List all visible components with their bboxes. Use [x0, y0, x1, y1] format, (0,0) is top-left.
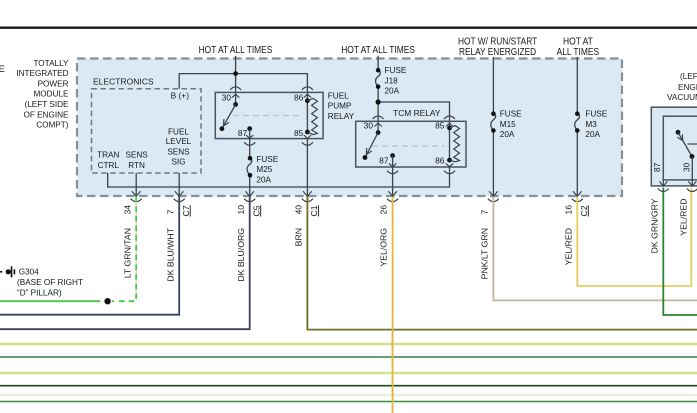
fuse M15 20A — [491, 114, 496, 131]
svg-text:LT GRN/TAN: LT GRN/TAN — [122, 228, 132, 278]
junction node at B(+) branch — [233, 71, 238, 76]
svg-text:TRAN: TRAN — [97, 151, 119, 160]
svg-text:CTRL: CTRL — [98, 161, 120, 170]
svg-text:16: 16 — [563, 205, 573, 215]
pin 7 exit arrow — [489, 191, 498, 196]
wire pin85 down to TIPM edge — [306, 139, 308, 196]
svg-text:FUEL: FUEL — [328, 91, 349, 100]
TCM pin 86 exit arrow — [446, 163, 453, 166]
fuel pump relay K1 box — [215, 92, 323, 138]
TIPM module box (dashed, light blue) — [77, 59, 622, 197]
svg-text:FUSE: FUSE — [585, 110, 607, 119]
TCM pin 30 entry arrow — [374, 123, 381, 126]
svg-text:ENGINE: ENGINE — [678, 83, 697, 92]
bus wire 5 (very pale green) — [0, 394, 697, 396]
svg-text:20A: 20A — [500, 130, 515, 139]
svg-text:E: E — [0, 64, 5, 75]
svg-text:86: 86 — [435, 156, 445, 166]
bus wire 6 (green) — [0, 401, 697, 403]
wire DK BLU/ORG pin 10 C5 — [0, 197, 250, 330]
svg-text:COMPT): COMPT) — [36, 121, 69, 130]
svg-text:PNK/LT GRN: PNK/LT GRN — [480, 228, 490, 279]
connector cup above TCM pin 85 — [444, 116, 455, 119]
svg-text:M3: M3 — [585, 120, 597, 129]
fuse M3 20A — [575, 114, 580, 131]
svg-text:DK BLU/ORG: DK BLU/ORG — [236, 228, 246, 282]
svg-text:ELECTRONICS: ELECTRONICS — [93, 76, 154, 86]
vacuum pump outer box — [651, 107, 697, 186]
pin 16 C2 exit arrow — [573, 191, 582, 196]
vacuum relay switch arm — [676, 130, 681, 135]
svg-text:(LEFT SIDE: (LEFT SIDE — [25, 100, 70, 109]
svg-text:FUEL: FUEL — [168, 128, 189, 137]
svg-text:(BASE OF RIGHT: (BASE OF RIGHT — [17, 278, 83, 287]
svg-text:87: 87 — [379, 156, 389, 166]
svg-text:FUSE: FUSE — [500, 110, 522, 119]
vacuum pin 87 wire + exit arrow — [662, 180, 664, 186]
pin 86 entry arrow — [304, 94, 311, 97]
wire hot-at-all-times #1 down to relay pin 30 — [235, 56, 237, 105]
svg-text:20A: 20A — [256, 175, 271, 184]
wire BRN pin 40 C1 — [307, 197, 697, 330]
connector cup above relay pin 30 — [230, 87, 241, 90]
connector cup below relay pin 87 — [244, 142, 255, 145]
svg-text:26: 26 — [379, 205, 389, 215]
pin 85 exit arrow — [304, 135, 311, 138]
svg-text:G304: G304 — [19, 268, 39, 277]
svg-text:FUSE: FUSE — [385, 66, 407, 75]
connector cup below TCM pin 87 — [387, 171, 398, 174]
fuse J18 20A — [376, 70, 381, 86]
svg-text:VACUUM P: VACUUM P — [667, 93, 697, 102]
svg-text:B (+): B (+) — [171, 91, 190, 101]
svg-text:“D” PILLAR): “D” PILLAR) — [17, 289, 62, 298]
vacuum pin 30 wire + exit arrow — [691, 157, 693, 186]
wire B(+) to relay pin 86 — [179, 74, 307, 101]
TCM relay mechanical link (dashed) — [372, 145, 444, 147]
relay mechanical link (dashed) — [233, 115, 303, 117]
svg-text:DK BLU/WHT: DK BLU/WHT — [165, 227, 175, 281]
top border line — [0, 27, 697, 29]
branch wire to TCM relay pin 85 — [378, 102, 449, 128]
connector cup below relay pin 85 — [302, 142, 313, 145]
TCM pin 85 entry arrow — [446, 123, 453, 126]
connector cup pin 26 — [387, 199, 398, 202]
svg-text:30: 30 — [222, 92, 232, 102]
svg-text:7: 7 — [165, 210, 175, 215]
svg-text:87: 87 — [238, 128, 248, 138]
switch arm 30-87 — [233, 102, 238, 107]
wire TCM pin 87 down to TIPM edge — [392, 167, 394, 196]
svg-text:C2: C2 — [579, 205, 589, 216]
svg-text:34: 34 — [122, 205, 132, 215]
pin 40 C1 exit arrow — [303, 191, 312, 196]
svg-text:C5: C5 — [251, 205, 261, 216]
svg-text:87: 87 — [652, 162, 662, 172]
svg-text:DK GRN/GRY: DK GRN/GRY — [649, 198, 659, 253]
wire YEL/RED pin 16 C2 to vacuum pump pin 30 — [577, 188, 691, 287]
svg-text:PUMP: PUMP — [328, 102, 352, 111]
vacuum relay contact stub — [688, 143, 697, 145]
bus wire 1 (pale yellow-green) — [0, 343, 697, 345]
svg-text:10: 10 — [236, 205, 246, 215]
pin 7 C7 exit arrow — [175, 191, 184, 196]
svg-text:M25: M25 — [256, 165, 272, 174]
svg-text:C1: C1 — [309, 205, 319, 216]
connector cup above TCM pin 30 — [373, 116, 384, 119]
svg-text:YEL/RED: YEL/RED — [678, 199, 688, 236]
svg-text:HOT AT ALL TIMES: HOT AT ALL TIMES — [199, 45, 273, 56]
svg-text:86: 86 — [294, 92, 304, 102]
connector cup pin 10 C5 — [244, 199, 255, 202]
svg-text:7: 7 — [480, 210, 490, 215]
svg-text:YEL/ORG: YEL/ORG — [379, 228, 389, 267]
svg-text:TOTALLY: TOTALLY — [33, 59, 69, 68]
svg-text:HOT AT ALL TIMES: HOT AT ALL TIMES — [341, 45, 415, 56]
wire hot-at-all-times #2 down through fuse J18 — [377, 56, 379, 70]
svg-text:SENS: SENS — [167, 148, 190, 157]
wire DK GRN/GRY vacuum pump pin 87 — [663, 188, 697, 316]
wire hot-run/start down through fuse M15 to TIPM edge — [492, 57, 494, 114]
wire hot-at-all-times right down through fuse M3 to TIPM edge — [576, 57, 578, 114]
connector cup pin 7 C7 — [174, 199, 185, 202]
svg-text:OF ENGINE: OF ENGINE — [23, 110, 69, 119]
svg-text:SIG: SIG — [171, 158, 185, 167]
vacuum pump relay inner box — [663, 116, 697, 180]
wire SENS RTN down to TIPM edge — [135, 173, 137, 196]
connector cup pin 34 — [131, 199, 142, 202]
pin 10 C5 exit arrow — [245, 191, 254, 196]
wire LT GRN/TAN pin 34 (dashed) — [135, 197, 137, 300]
svg-text:85: 85 — [294, 128, 304, 138]
wire TRAN CTRL to TCM pin 86 coil — [108, 167, 450, 187]
svg-text:J18: J18 — [385, 76, 399, 85]
pin 26 exit arrow — [388, 191, 397, 196]
TCM relay coil 85-86 — [449, 128, 451, 160]
relay coil 86-85 — [306, 101, 308, 132]
svg-text:YEL/RED: YEL/RED — [563, 228, 573, 265]
bus wire 4 (dark green) — [0, 385, 697, 387]
svg-text:85: 85 — [435, 121, 445, 131]
connector cup pin 7 — [488, 199, 499, 202]
svg-text:RTN: RTN — [128, 161, 145, 170]
connector cup pin 16 C2 — [572, 199, 583, 202]
YEL/ORG crossing over buses — [392, 330, 394, 413]
svg-text:40: 40 — [294, 205, 304, 215]
svg-text:MODULE: MODULE — [33, 90, 69, 99]
junction node below fuse J18 — [376, 99, 381, 104]
bus wire 3 (pale yellow-green) — [0, 372, 697, 374]
pin 34 exit arrow — [132, 191, 141, 196]
TCM relay K2 box — [356, 121, 466, 167]
svg-text:RELAY ENERGIZED: RELAY ENERGIZED — [459, 47, 536, 58]
svg-text:BRN: BRN — [294, 228, 304, 246]
fuse M25 20A — [246, 160, 253, 175]
svg-text:(LEFT: (LEFT — [680, 72, 697, 81]
svg-text:INTEGRATED: INTEGRATED — [16, 69, 68, 78]
svg-text:20A: 20A — [585, 130, 600, 139]
connector cup vacuum pin 87 — [658, 189, 669, 192]
wire DK BLU/WHT pin 7 C7 — [0, 197, 179, 315]
wire FUEL LEVEL SENS SIG down to TIPM edge — [178, 173, 180, 196]
connector cup above relay pin 86 — [302, 87, 313, 90]
svg-text:C7: C7 — [181, 205, 191, 216]
svg-text:LEVEL: LEVEL — [166, 137, 192, 146]
TCM switch arm 30-87 — [376, 130, 381, 135]
svg-text:30: 30 — [681, 162, 691, 172]
TCM pin 87 wire + exit arrow — [390, 153, 395, 158]
wire PNK/LT GRN pin 7 — [493, 197, 697, 301]
svg-text:ALL TIMES: ALL TIMES — [557, 47, 600, 58]
connector cup pin 40 C1 — [302, 199, 313, 202]
connector cup below TCM pin 86 — [444, 171, 455, 174]
wire YEL/ORG pin 26 — [392, 197, 394, 413]
svg-text:20A: 20A — [385, 87, 400, 96]
svg-text:SENS: SENS — [125, 151, 148, 160]
svg-text:RELAY: RELAY — [328, 112, 355, 121]
pin 30 entry arrow — [232, 94, 239, 97]
svg-text:M15: M15 — [500, 120, 516, 129]
bus wire 2 (green) — [0, 356, 697, 358]
svg-text:POWER: POWER — [38, 79, 69, 88]
svg-text:FUSE: FUSE — [256, 155, 278, 164]
wire pin87 to fuse M25 to TIPM edge — [249, 139, 251, 196]
ground G304 — [0, 271, 2, 273]
svg-text:TCM RELAY: TCM RELAY — [393, 108, 441, 118]
connector cup vacuum pin 30 — [687, 189, 697, 192]
pin 87 wire down with exit arrow — [247, 126, 252, 131]
electronics sub-box (dashed) — [92, 89, 202, 173]
svg-text:30: 30 — [364, 121, 374, 131]
